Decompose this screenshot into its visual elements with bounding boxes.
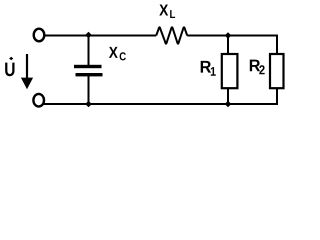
arrow (voltage direction) [26, 54, 28, 80]
resistor R1 [222, 54, 238, 88]
junction dot top R1 [225, 32, 232, 39]
label XC [109, 47, 118, 58]
wire top [45, 35, 157, 37]
junction dot top capacitor [85, 32, 92, 39]
wire bottom [44, 88, 278, 104]
capacitor branch wires [88, 36, 90, 66]
capacitor XC plates [74, 65, 102, 68]
resistor R1 branch wire [227, 36, 229, 105]
junction dot bottom R1 [225, 101, 232, 108]
inductor XL [156, 27, 187, 44]
label U-dot (voltage) [5, 63, 14, 77]
terminal bottom-left [33, 94, 44, 107]
label R1 [201, 61, 211, 73]
junction dot bottom capacitor [85, 101, 92, 108]
label XL [159, 4, 168, 15]
terminal top-left [34, 29, 45, 42]
label R2 [250, 60, 260, 72]
resistor R2 [270, 54, 284, 88]
wire top right [187, 36, 277, 54]
